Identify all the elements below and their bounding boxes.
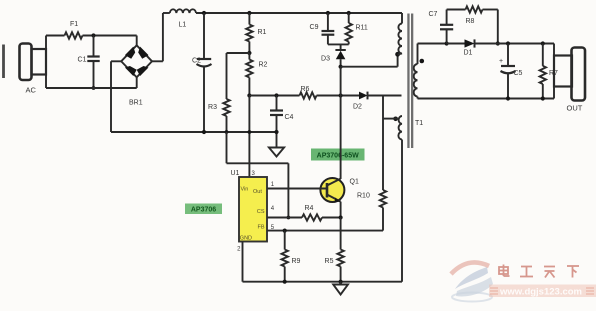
wire pin4 CS line	[267, 217, 302, 219]
svg-text:C9: C9	[310, 24, 319, 31]
watermark text dian gong tian xia	[499, 265, 579, 278]
svg-text:D1: D1	[464, 50, 473, 57]
svg-text:R6: R6	[301, 86, 310, 93]
OUT connector	[553, 44, 555, 57]
resistor R10	[380, 190, 386, 208]
T1 secondary winding	[414, 64, 418, 97]
svg-text:R11: R11	[356, 25, 368, 32]
wire secondary output top	[475, 43, 555, 45]
wire Q1 emitter down	[340, 202, 342, 218]
node snubber tap	[445, 41, 449, 45]
capacitor C2 (electrolytic)	[203, 13, 205, 59]
wire aux bottom to ground rail	[401, 140, 403, 282]
node collector line crossing	[339, 93, 343, 97]
transistor Q1	[320, 178, 344, 202]
resistor R1	[248, 13, 250, 25]
wire R3 down to CS link	[226, 132, 228, 163]
wire rail corner to primary	[401, 13, 403, 24]
wire junction to R3 top	[227, 52, 250, 54]
watermark logo	[451, 262, 493, 301]
svg-text:R2: R2	[259, 62, 268, 69]
wire plug bottom to AC line	[45, 74, 47, 88]
node R9 tap	[283, 229, 287, 233]
wire secondary bottom	[417, 97, 419, 99]
svg-text:R3: R3	[208, 104, 217, 111]
wire top rail left of F1	[46, 35, 65, 37]
capacitor C9	[327, 13, 329, 31]
wire secondary top riser	[417, 44, 419, 65]
svg-text:R8: R8	[466, 18, 475, 25]
svg-text:Vin: Vin	[241, 187, 249, 193]
svg-text:BR1: BR1	[129, 100, 143, 107]
svg-text:AC: AC	[26, 86, 37, 95]
wire pin2 GND drop	[242, 242, 244, 282]
transformer T1 core	[407, 14, 409, 149]
wire D2 to R10	[382, 96, 384, 191]
svg-text:R9: R9	[292, 258, 301, 265]
node snubber return	[496, 41, 500, 45]
wire top rail F1 to BR1	[83, 35, 137, 37]
node aux top	[393, 117, 398, 122]
wire snubber to primary bottom	[341, 66, 398, 68]
node R3 rail crossing	[225, 130, 229, 134]
node D3 bottom junction	[339, 65, 343, 69]
ground below C4	[269, 148, 284, 157]
svg-text:4: 4	[271, 206, 275, 212]
node emitter R4 junction	[339, 215, 343, 219]
capacitor C7	[446, 29, 448, 43]
green label AP3706 left	[185, 204, 222, 215]
ground symbol bottom	[340, 282, 342, 285]
node R1 top	[247, 11, 251, 15]
T1 primary winding	[398, 24, 402, 55]
svg-text:2: 2	[237, 247, 241, 253]
node C2 top	[202, 11, 206, 15]
resistor R9	[284, 231, 286, 250]
svg-text:GND: GND	[240, 236, 252, 242]
capacitor C1	[93, 36, 95, 57]
svg-text:1: 1	[271, 182, 275, 188]
svg-text:C1: C1	[78, 57, 87, 64]
wire pin1 to Q1 base	[267, 188, 327, 190]
node C5 bottom	[506, 96, 510, 100]
resistor R4	[302, 214, 322, 220]
node C4 rail junction	[274, 130, 278, 134]
node R11 top	[347, 11, 351, 15]
svg-text:C5: C5	[514, 70, 523, 77]
svg-text:R5: R5	[325, 258, 334, 265]
node C5 top	[506, 41, 510, 45]
resistor R6	[300, 92, 317, 98]
capacitor C4	[276, 96, 278, 111]
node C4 top	[274, 93, 278, 97]
T1 aux winding	[398, 116, 402, 140]
svg-text:Out: Out	[253, 189, 262, 195]
wire AC bottom line	[46, 87, 137, 89]
node R7 bottom	[541, 96, 545, 100]
edge artifact at image left border	[2, 45, 5, 79]
svg-text:+: +	[499, 58, 503, 65]
resistor R2	[246, 60, 252, 78]
wire BR1 top vertex drop	[136, 36, 138, 47]
resistor R5	[340, 218, 342, 250]
svg-text:C7: C7	[429, 11, 438, 18]
inductor L1	[170, 9, 196, 13]
svg-text:D3: D3	[321, 56, 330, 63]
wire BR1 left vertex to DC- rail	[111, 60, 121, 62]
resistor R7	[542, 44, 544, 66]
green label AP3706-65W top	[311, 149, 365, 161]
diode D1	[465, 39, 475, 47]
wire BR1 bottom vertex riser	[136, 77, 138, 89]
svg-text:AP3706-65W: AP3706-65W	[317, 153, 359, 160]
svg-text:R10: R10	[357, 193, 370, 200]
svg-text:F1: F1	[70, 21, 78, 28]
wire Q1 collector vertical	[340, 67, 342, 179]
resistor R3	[223, 99, 229, 116]
node R5 bottom	[339, 280, 343, 284]
wire BR1 right vertex to L1	[152, 60, 163, 62]
node pin3 rail crossing	[248, 130, 252, 134]
resistor R11	[348, 13, 350, 23]
svg-text:C2: C2	[192, 58, 201, 65]
wire R6 to collector node	[317, 95, 341, 97]
wire ground bottom rail	[243, 281, 403, 283]
svg-text:L1: L1	[179, 22, 187, 29]
node R2 bottom junction	[247, 93, 251, 97]
wire R6 line left	[249, 95, 299, 97]
wire D1 anode lead	[447, 43, 465, 45]
secondary polarity dot	[420, 59, 425, 64]
svg-text:AP3706: AP3706	[191, 207, 216, 214]
wire top DC+ rail	[196, 12, 402, 14]
svg-text:T1: T1	[415, 120, 423, 127]
node R1 R2 R3 junction	[247, 51, 251, 55]
svg-text:www.dgjs123.com: www.dgjs123.com	[499, 287, 582, 298]
node C1 top junction	[91, 33, 95, 37]
fuse F1	[65, 32, 83, 38]
svg-text:R4: R4	[305, 205, 314, 212]
node R9 bottom	[283, 280, 287, 284]
AC plug connector	[20, 44, 32, 81]
node R7 top	[541, 41, 545, 45]
resistor R8	[466, 6, 483, 12]
diode D2	[359, 92, 368, 100]
node primary bottom	[395, 52, 400, 57]
svg-text:C4: C4	[285, 114, 294, 121]
op-amp U1 controller IC body	[239, 177, 267, 242]
svg-text:OUT: OUT	[567, 104, 583, 113]
wire aux top link	[383, 118, 398, 120]
svg-text:FB: FB	[257, 225, 264, 231]
bridge rectifier BR1	[121, 45, 152, 77]
svg-text:Q1: Q1	[350, 179, 359, 186]
wire plug top to rail	[45, 36, 47, 51]
wire Vin pin3 drop	[248, 96, 250, 178]
svg-text:D2: D2	[353, 104, 362, 111]
node C9 top	[326, 11, 330, 15]
svg-text:CS: CS	[257, 209, 265, 215]
diode D3	[340, 44, 342, 50]
wire pin5 FB line	[267, 230, 383, 232]
wire snubber top rail	[447, 9, 466, 11]
capacitor C5 (electrolytic)	[507, 44, 509, 67]
watermark url band	[489, 285, 596, 298]
node C2 bottom on rail	[202, 130, 206, 134]
wire snubber bottom link	[328, 43, 349, 45]
wire snubber right drop	[483, 9, 498, 11]
svg-text:U1: U1	[231, 170, 240, 177]
wire DC- long bottom rail	[111, 131, 277, 133]
svg-text:R1: R1	[258, 29, 267, 36]
